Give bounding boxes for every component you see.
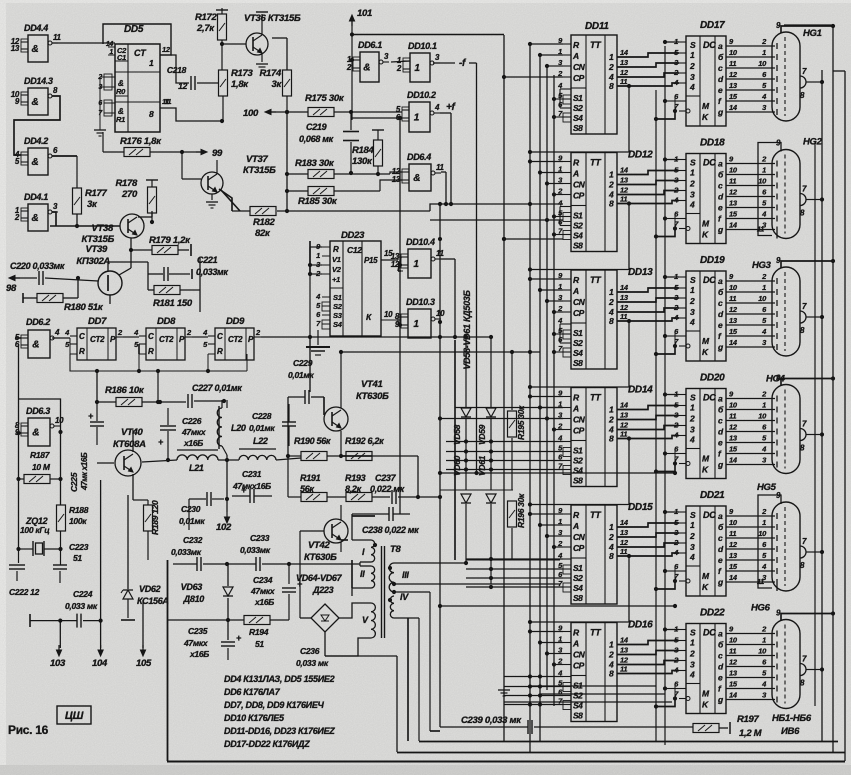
svg-text:11: 11: [729, 647, 736, 656]
svg-text:S2: S2: [573, 338, 583, 348]
svg-text:R: R: [148, 347, 154, 356]
svg-text:1,2 М: 1,2 М: [739, 728, 763, 739]
svg-text:S: S: [690, 510, 696, 520]
svg-text:10: 10: [758, 59, 767, 68]
svg-text:CP: CP: [573, 661, 585, 671]
svg-text:C230: C230: [181, 504, 201, 514]
svg-text:a: a: [718, 41, 723, 51]
svg-text:15: 15: [729, 210, 738, 219]
svg-text:VD63: VD63: [181, 582, 203, 592]
svg-text:х16Б: х16Б: [189, 649, 209, 659]
svg-text:х16Б: х16Б: [183, 438, 203, 448]
svg-text:12: 12: [178, 81, 187, 91]
svg-text:8: 8: [609, 316, 614, 326]
svg-text:R197: R197: [737, 714, 760, 725]
svg-text:14: 14: [729, 456, 738, 465]
svg-text:2,7к: 2,7к: [196, 23, 215, 34]
svg-text:L20: L20: [231, 423, 246, 433]
svg-text:DD6.1: DD6.1: [358, 40, 382, 50]
svg-text:DD18: DD18: [700, 138, 725, 149]
svg-text:130к: 130к: [352, 156, 373, 167]
svg-text:R: R: [79, 347, 85, 356]
svg-text:DD6 К176ЛА7: DD6 К176ЛА7: [224, 687, 281, 697]
svg-text:1: 1: [690, 403, 695, 413]
svg-text:DC: DC: [703, 393, 716, 403]
svg-text:12: 12: [729, 188, 738, 197]
svg-text:0,033 мк: 0,033 мк: [65, 601, 98, 611]
svg-text:S2: S2: [573, 103, 583, 113]
svg-text:47мк x16Б: 47мк x16Б: [80, 452, 89, 491]
svg-text:C1: C1: [117, 53, 126, 62]
svg-text:8: 8: [609, 434, 614, 444]
svg-text:13: 13: [729, 669, 738, 678]
svg-text:R181 150: R181 150: [153, 298, 193, 309]
svg-text:DD4 К131ЛАЗ, DD5 155ИЕ2: DD4 К131ЛАЗ, DD5 155ИЕ2: [224, 674, 335, 684]
svg-text:DD21: DD21: [700, 490, 725, 501]
svg-text:T8: T8: [390, 544, 402, 555]
svg-text:15: 15: [729, 562, 738, 571]
svg-text:0,033мк: 0,033мк: [240, 545, 271, 555]
svg-text:DD14: DD14: [628, 385, 653, 396]
svg-text:1: 1: [109, 49, 113, 56]
svg-text:VT40: VT40: [121, 427, 144, 438]
svg-text:8: 8: [149, 109, 154, 119]
svg-text:1: 1: [690, 285, 695, 295]
svg-text:14: 14: [106, 41, 114, 48]
svg-text:DC: DC: [703, 510, 716, 520]
svg-text:C232: C232: [183, 535, 203, 545]
svg-text:0,033мк: 0,033мк: [196, 267, 228, 277]
svg-text:11: 11: [729, 177, 736, 186]
svg-text:R175 30к: R175 30к: [305, 93, 345, 104]
svg-text:R184: R184: [352, 145, 375, 156]
svg-text:47мкх: 47мкх: [250, 586, 276, 596]
svg-text:12: 12: [729, 305, 738, 314]
svg-text:3к: 3к: [87, 199, 98, 210]
svg-text:51: 51: [255, 639, 264, 649]
svg-text:1: 1: [762, 48, 766, 57]
svg-text:VT38: VT38: [91, 223, 114, 234]
svg-text:12: 12: [729, 540, 738, 549]
svg-text:14: 14: [729, 573, 738, 582]
svg-text:HG1: HG1: [803, 28, 822, 39]
svg-text:CN: CN: [573, 650, 586, 660]
svg-text:14: 14: [729, 691, 738, 700]
svg-text:S1: S1: [573, 446, 583, 456]
svg-text:12: 12: [620, 303, 629, 312]
svg-text:S1: S1: [573, 211, 583, 221]
svg-text:e: e: [718, 673, 723, 683]
svg-text:3: 3: [690, 660, 695, 670]
svg-text:10: 10: [729, 48, 738, 57]
svg-text:14: 14: [729, 338, 738, 347]
svg-text:R: R: [217, 347, 223, 356]
svg-text:TT: TT: [590, 628, 602, 638]
svg-text:CP: CP: [573, 73, 585, 83]
svg-text:4: 4: [689, 552, 695, 562]
svg-text:VD58: VD58: [452, 424, 462, 445]
svg-text:+1: +1: [332, 275, 340, 284]
svg-text:VT41: VT41: [361, 379, 383, 390]
svg-text:DD10.1: DD10.1: [408, 41, 437, 51]
svg-text:DD6.3: DD6.3: [26, 406, 50, 416]
svg-text:HБ1-HБ6: HБ1-HБ6: [772, 713, 812, 724]
svg-text:1: 1: [609, 640, 614, 650]
svg-text:C238 0,022 мк: C238 0,022 мк: [362, 525, 419, 535]
svg-text:11: 11: [620, 312, 627, 321]
svg-text:S2: S2: [573, 573, 583, 583]
svg-text:C226: C226: [182, 416, 202, 426]
svg-text:S8: S8: [573, 476, 583, 486]
svg-text:S2: S2: [333, 302, 343, 311]
svg-text:14: 14: [620, 48, 629, 57]
svg-text:TT: TT: [590, 40, 602, 50]
svg-text:КТ608А: КТ608А: [113, 439, 146, 450]
svg-text:CN: CN: [573, 297, 586, 307]
svg-text:13: 13: [620, 293, 629, 302]
svg-text:R177: R177: [85, 188, 108, 199]
svg-text:4: 4: [689, 435, 695, 445]
svg-text:10: 10: [729, 636, 738, 645]
svg-text:C: C: [148, 332, 154, 341]
svg-text:1: 1: [690, 50, 695, 60]
svg-text:13: 13: [620, 176, 629, 185]
svg-text:A: A: [572, 286, 579, 296]
svg-text:0,01мк: 0,01мк: [179, 516, 205, 526]
svg-text:C12: C12: [347, 245, 362, 255]
svg-text:2: 2: [346, 63, 352, 72]
svg-text:CN: CN: [573, 415, 586, 425]
svg-text:C224: C224: [73, 589, 93, 599]
svg-text:VT37: VT37: [246, 154, 269, 165]
svg-text:DD17-DD22 К176ИДZ: DD17-DD22 К176ИДZ: [224, 739, 310, 749]
svg-text:a: a: [718, 159, 723, 169]
svg-text:2: 2: [689, 531, 695, 541]
svg-text:DD10.4: DD10.4: [406, 237, 435, 247]
svg-text:A: A: [572, 51, 579, 61]
svg-text:R196 30к: R196 30к: [516, 493, 526, 528]
svg-text:10: 10: [758, 647, 767, 656]
svg-text:10: 10: [758, 529, 767, 538]
svg-text:CP: CP: [573, 308, 585, 318]
svg-text:CN: CN: [573, 532, 586, 542]
svg-text:DD22: DD22: [700, 608, 725, 619]
svg-text:3: 3: [690, 307, 695, 317]
svg-text:IV: IV: [400, 592, 409, 602]
svg-text:8: 8: [609, 81, 614, 91]
svg-text:1: 1: [762, 518, 766, 527]
svg-text:CT2: CT2: [159, 335, 174, 344]
svg-text:99: 99: [212, 148, 223, 159]
svg-text:C233: C233: [250, 533, 270, 543]
svg-text:C228: C228: [252, 411, 272, 421]
svg-text:103: 103: [50, 658, 66, 669]
svg-text:1: 1: [690, 520, 695, 530]
svg-text:R189 120: R189 120: [150, 500, 160, 535]
svg-text:S3: S3: [333, 311, 343, 320]
svg-text:13: 13: [620, 528, 629, 537]
svg-text:2: 2: [608, 650, 614, 660]
svg-text:C: C: [79, 332, 85, 341]
svg-text:14: 14: [620, 518, 629, 527]
svg-text:100: 100: [243, 108, 259, 119]
svg-text:C: C: [217, 332, 223, 341]
svg-text:11: 11: [620, 547, 627, 556]
svg-text:DD7, DD8, DD9 К176ИЕЧ: DD7, DD8, DD9 К176ИЕЧ: [224, 700, 325, 710]
svg-text:2: 2: [689, 61, 695, 71]
svg-text:C225: C225: [69, 472, 79, 492]
svg-text:&: &: [32, 340, 39, 351]
svg-text:11: 11: [620, 665, 627, 674]
svg-text:S: S: [690, 40, 696, 50]
svg-text:R174: R174: [259, 68, 282, 79]
svg-text:III: III: [402, 570, 409, 580]
svg-text:c: c: [718, 416, 723, 426]
svg-text:1,8к: 1,8к: [231, 79, 249, 90]
svg-text:S4: S4: [573, 231, 583, 241]
svg-text:DD8: DD8: [157, 316, 176, 327]
svg-text:11: 11: [436, 163, 445, 172]
svg-text:DC: DC: [703, 40, 716, 50]
svg-text:2: 2: [608, 297, 614, 307]
svg-text:VT42: VT42: [308, 540, 331, 551]
svg-text:11: 11: [729, 412, 736, 421]
svg-text:DD16: DD16: [628, 620, 653, 631]
svg-text:11: 11: [620, 77, 627, 86]
svg-text:C219: C219: [306, 122, 327, 132]
svg-text:HG2: HG2: [803, 137, 823, 148]
svg-text:&: &: [32, 97, 39, 108]
svg-text:&: &: [32, 44, 39, 55]
svg-text:2: 2: [396, 64, 402, 73]
svg-text:ИВ6: ИВ6: [781, 726, 800, 737]
svg-text:98: 98: [6, 283, 17, 294]
svg-text:13: 13: [620, 411, 629, 420]
svg-text:e: e: [718, 555, 723, 565]
svg-text:DC: DC: [703, 628, 716, 638]
svg-text:12: 12: [729, 423, 738, 432]
svg-text:C231: C231: [242, 469, 262, 479]
svg-text:TT: TT: [590, 158, 602, 168]
svg-text:S1: S1: [573, 563, 583, 573]
svg-text:CP: CP: [573, 426, 585, 436]
svg-text:&: &: [32, 428, 39, 439]
svg-text:13: 13: [729, 316, 738, 325]
svg-text:2: 2: [14, 213, 20, 222]
svg-text:2: 2: [689, 649, 695, 659]
svg-text:S4: S4: [573, 113, 583, 123]
svg-text:R191: R191: [300, 473, 321, 483]
svg-text:1: 1: [609, 522, 614, 532]
svg-text:R183 30к: R183 30к: [295, 158, 335, 169]
svg-text:12: 12: [620, 68, 629, 77]
svg-text:R192 6,2к: R192 6,2к: [345, 436, 384, 446]
svg-text:13: 13: [729, 199, 738, 208]
svg-text:CT: CT: [134, 48, 147, 58]
svg-text:10: 10: [758, 412, 767, 421]
svg-text:0,033 мк: 0,033 мк: [296, 658, 329, 668]
svg-text:11: 11: [729, 529, 736, 538]
svg-text:V2: V2: [332, 265, 342, 274]
svg-text:DD11-DD16, DD23 К176ИЕZ: DD11-DD16, DD23 К176ИЕZ: [224, 726, 335, 736]
svg-text:12: 12: [729, 658, 738, 667]
svg-text:8: 8: [609, 551, 614, 561]
svg-text:DD5: DD5: [124, 24, 144, 35]
svg-text:DD20: DD20: [700, 373, 725, 384]
svg-text:11: 11: [53, 33, 62, 42]
svg-text:R194: R194: [249, 627, 269, 637]
svg-text:A: A: [572, 521, 579, 531]
svg-text:11: 11: [164, 97, 171, 106]
svg-text:1: 1: [149, 58, 154, 68]
svg-text:DD15: DD15: [628, 502, 653, 513]
svg-text:3: 3: [690, 72, 695, 82]
svg-text:DD4.2: DD4.2: [24, 136, 48, 146]
svg-text:2: 2: [608, 532, 614, 542]
svg-text:10: 10: [729, 283, 738, 292]
svg-text:КТ315Б: КТ315Б: [243, 165, 276, 176]
svg-text:2: 2: [689, 414, 695, 424]
svg-text:A: A: [572, 169, 579, 179]
svg-text:S2: S2: [573, 221, 583, 231]
svg-text:DD13: DD13: [628, 267, 653, 278]
svg-text:DC: DC: [703, 158, 716, 168]
svg-text:2: 2: [608, 415, 614, 425]
svg-text:CP: CP: [573, 543, 585, 553]
svg-text:4: 4: [689, 670, 695, 680]
svg-text:VD59: VD59: [477, 424, 487, 445]
svg-text:R173: R173: [231, 68, 254, 79]
svg-text:CT2: CT2: [228, 335, 243, 344]
svg-text:VD58-VD61 КД503Б: VD58-VD61 КД503Б: [462, 290, 472, 370]
svg-text:3: 3: [690, 542, 695, 552]
svg-text:1: 1: [413, 259, 419, 270]
svg-text:S1: S1: [573, 93, 583, 103]
svg-text:c: c: [718, 651, 723, 661]
svg-text:A: A: [572, 404, 579, 414]
svg-text:C227 0,01мк: C227 0,01мк: [192, 383, 242, 393]
svg-text:S4: S4: [333, 320, 343, 329]
svg-text:12: 12: [620, 186, 629, 195]
svg-text:14: 14: [620, 401, 629, 410]
svg-text:R185 30к: R185 30к: [298, 196, 338, 207]
svg-text:0,033мк: 0,033мк: [171, 547, 202, 557]
svg-text:1: 1: [316, 251, 320, 260]
svg-text:8: 8: [609, 199, 614, 209]
svg-text:TT: TT: [590, 393, 602, 403]
svg-text:105: 105: [136, 658, 152, 669]
svg-text:0,01мк: 0,01мк: [249, 423, 275, 433]
svg-text:S8: S8: [573, 123, 583, 133]
svg-text:10: 10: [729, 518, 738, 527]
svg-text:HG6: HG6: [751, 603, 771, 614]
svg-text:&: &: [363, 63, 370, 74]
svg-text:11: 11: [757, 225, 764, 234]
svg-text:3к: 3к: [272, 79, 283, 90]
svg-text:DD19: DD19: [700, 255, 725, 266]
svg-text:CP: CP: [573, 191, 585, 201]
svg-text:HG5: HG5: [757, 482, 777, 493]
svg-text:1: 1: [413, 319, 419, 330]
svg-text:DD9: DD9: [226, 316, 245, 327]
svg-text:КТ630Б: КТ630Б: [304, 552, 337, 563]
svg-text:11: 11: [620, 195, 627, 204]
svg-text:e: e: [718, 203, 723, 213]
svg-text:L21: L21: [189, 463, 204, 473]
svg-text:1: 1: [762, 636, 766, 645]
svg-text:DD14.3: DD14.3: [24, 76, 53, 86]
svg-text:1: 1: [762, 401, 766, 410]
svg-text:a: a: [718, 276, 723, 286]
svg-text:a: a: [718, 629, 723, 639]
svg-text:VD64-VD67: VD64-VD67: [296, 573, 343, 583]
svg-text:C222 12: C222 12: [9, 587, 40, 597]
svg-text:2: 2: [689, 296, 695, 306]
svg-text:S4: S4: [573, 348, 583, 358]
svg-text:S4: S4: [573, 466, 583, 476]
svg-text:R186 10к: R186 10к: [105, 385, 145, 396]
svg-text:15: 15: [729, 680, 738, 689]
svg-text:S: S: [690, 158, 696, 168]
svg-text:13: 13: [729, 551, 738, 560]
svg-text:R182: R182: [253, 217, 276, 228]
svg-text:13: 13: [620, 58, 629, 67]
svg-text:10: 10: [758, 294, 767, 303]
svg-text:S4: S4: [573, 583, 583, 593]
svg-text:R: R: [333, 245, 339, 254]
svg-text:e: e: [718, 85, 723, 95]
svg-text:c: c: [718, 63, 723, 73]
svg-text:DD6.4: DD6.4: [407, 152, 431, 162]
svg-text:&: &: [413, 173, 420, 184]
svg-text:10: 10: [729, 401, 738, 410]
svg-text:13: 13: [729, 434, 738, 443]
svg-text:100 кГц: 100 кГц: [20, 525, 50, 535]
svg-text:1: 1: [609, 287, 614, 297]
svg-text:1: 1: [762, 283, 766, 292]
svg-text:C237: C237: [375, 473, 397, 483]
svg-text:S8: S8: [573, 711, 583, 721]
svg-text:DD10 К176ЛЕ5: DD10 К176ЛЕ5: [224, 713, 285, 723]
svg-text:15: 15: [729, 445, 738, 454]
svg-text:DD12: DD12: [628, 150, 653, 161]
svg-text:DD11: DD11: [585, 21, 609, 32]
svg-text:14: 14: [620, 283, 629, 292]
svg-text:12: 12: [620, 656, 629, 665]
svg-text:DC: DC: [703, 275, 716, 285]
svg-text:DD7: DD7: [88, 316, 107, 327]
svg-text:DD4.1: DD4.1: [24, 192, 48, 202]
svg-text:e: e: [718, 320, 723, 330]
svg-text:47мкх16Б: 47мкх16Б: [232, 481, 271, 491]
svg-text:12: 12: [162, 45, 171, 54]
svg-text:102: 102: [216, 522, 232, 533]
svg-text:a: a: [718, 394, 723, 404]
svg-text:3: 3: [690, 190, 695, 200]
svg-text:C239 0,033 мк: C239 0,033 мк: [461, 715, 522, 726]
svg-text:12: 12: [620, 538, 629, 547]
svg-text:4: 4: [689, 317, 695, 327]
svg-text:15: 15: [729, 327, 738, 336]
svg-text:V1: V1: [332, 255, 341, 264]
svg-text:R190 56к: R190 56к: [294, 436, 331, 446]
svg-text:КТ630Б: КТ630Б: [356, 391, 389, 402]
svg-text:4: 4: [54, 328, 60, 337]
svg-text:10: 10: [55, 416, 64, 425]
svg-text:R178: R178: [115, 178, 138, 189]
svg-text:100к: 100к: [69, 516, 87, 526]
svg-text:47мкх: 47мкх: [183, 638, 209, 648]
